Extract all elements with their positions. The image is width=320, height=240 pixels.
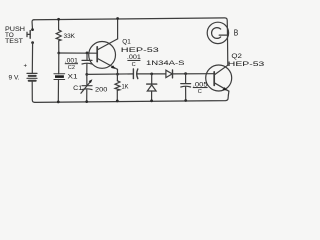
svg-text:HEP-53: HEP-53 <box>121 47 160 54</box>
node top rail / R1 <box>57 18 60 21</box>
node R1 / X1 / Q1 base wire <box>57 52 60 55</box>
wire Q1 base <box>59 52 97 54</box>
node R2 / bottom rail <box>116 100 119 103</box>
wire top rail <box>34 18 227 28</box>
svg-text:33K: 33K <box>64 33 76 40</box>
label PUSH TO TEST <box>5 26 25 45</box>
svg-text:9 V.: 9 V. <box>9 75 20 82</box>
node Q1 emitter / signal wire <box>116 73 119 76</box>
svg-text:Q1: Q1 <box>122 39 131 46</box>
node switch top contact <box>31 28 34 31</box>
svg-text:Q2: Q2 <box>231 53 242 60</box>
node D1 anode / D2 <box>150 73 153 76</box>
node X1 / bottom rail <box>57 101 60 104</box>
battery B1 9V <box>27 73 37 80</box>
wire left rail lower (battery to bottom corner) <box>32 81 35 102</box>
wire C2 junction to C3 <box>87 73 133 76</box>
label .001 C3 <box>127 54 142 68</box>
transistor Q1 HEP-53 <box>89 19 118 75</box>
node C1 / bottom rail <box>85 100 88 103</box>
lamp B <box>207 22 228 43</box>
svg-text:TEST: TEST <box>5 38 23 45</box>
diode D1 1N34A <box>166 70 214 78</box>
node base wire / C2 <box>86 52 89 55</box>
capacitor C3 .001 <box>133 69 166 79</box>
svg-text:B: B <box>234 29 239 38</box>
capacitor C2 .001 <box>82 53 92 74</box>
node D1 cathode wire / C4 <box>184 72 187 75</box>
node top rail / Q1 collector <box>116 17 119 20</box>
svg-text:X1: X1 <box>68 74 79 81</box>
svg-text:+: + <box>24 64 28 70</box>
wire left rail upper (corner to switch top contact) <box>32 20 34 30</box>
svg-text:C2: C2 <box>68 65 75 71</box>
node D2 / bottom rail <box>150 99 153 102</box>
resistor R1 33K <box>56 20 61 54</box>
svg-text:1K: 1K <box>122 83 130 90</box>
crystal X1 <box>54 74 65 102</box>
wire X1 branch upper <box>58 53 60 74</box>
label .005 C4 <box>193 81 208 95</box>
label .001 C2 <box>65 57 79 71</box>
diode D2 1N34A shunt <box>147 74 157 101</box>
node C4 / bottom rail <box>184 99 187 102</box>
capacitor C4 .005 <box>181 74 191 101</box>
wire bottom rail <box>35 95 229 102</box>
svg-text:C: C <box>198 89 202 95</box>
svg-text:1N34A-S: 1N34A-S <box>146 60 185 67</box>
wire right rail through lamp down to Q2 collector <box>226 28 228 65</box>
resistor R2 1K <box>115 74 120 101</box>
wire left rail middle (switch to battery) <box>31 43 33 73</box>
node switch bottom contact <box>31 41 34 44</box>
svg-text:200: 200 <box>95 87 108 94</box>
pushbutton switch S1 <box>27 31 30 39</box>
svg-text:C: C <box>132 62 136 68</box>
variable capacitor C1 200 <box>81 74 93 101</box>
node C2 / C1 / signal wire <box>85 73 88 76</box>
svg-text:C1: C1 <box>73 85 83 92</box>
svg-text:HEP-53: HEP-53 <box>228 61 265 68</box>
transistor Q2 HEP-53 <box>206 65 232 95</box>
